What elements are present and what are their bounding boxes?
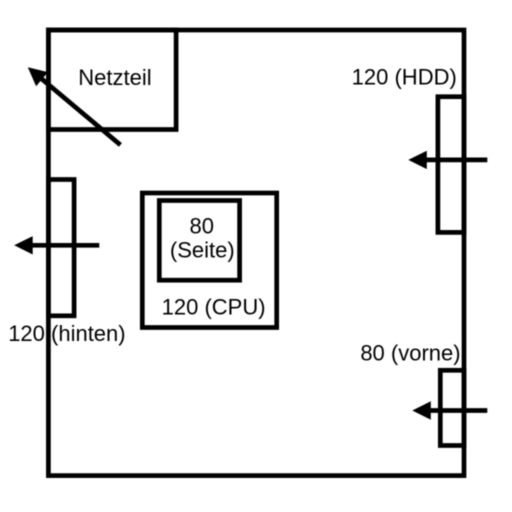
case outline bbox=[48, 30, 464, 476]
Netzteil box bbox=[48, 30, 176, 130]
airflow arrow Netzteil (diagonal out top-left) bbox=[28, 67, 121, 145]
fan 120 hinten (rear fan rect on left wall) bbox=[48, 180, 74, 316]
svg-text:Netzteil: Netzteil bbox=[78, 65, 151, 90]
box 80 Seite (inner square) bbox=[159, 201, 239, 281]
fan 80 vorne (rect on right wall, lower) bbox=[440, 370, 464, 445]
svg-text:120 (HDD): 120 (HDD) bbox=[352, 65, 457, 90]
airflow arrow HDD (in from right) bbox=[408, 151, 487, 169]
svg-text:120 (CPU): 120 (CPU) bbox=[162, 295, 266, 320]
airflow arrow hinten (out left) bbox=[14, 236, 99, 254]
svg-text:80 (vorne): 80 (vorne) bbox=[360, 340, 460, 365]
svg-text:120 (hinten): 120 (hinten) bbox=[8, 321, 125, 346]
svg-text:(Seite): (Seite) bbox=[170, 238, 235, 263]
svg-text:80: 80 bbox=[190, 213, 214, 238]
box 120 CPU (central square) bbox=[142, 193, 276, 328]
airflow arrow vorne (in from right) bbox=[412, 401, 487, 419]
fan 120 HDD (rect on right wall, upper) bbox=[438, 97, 464, 233]
